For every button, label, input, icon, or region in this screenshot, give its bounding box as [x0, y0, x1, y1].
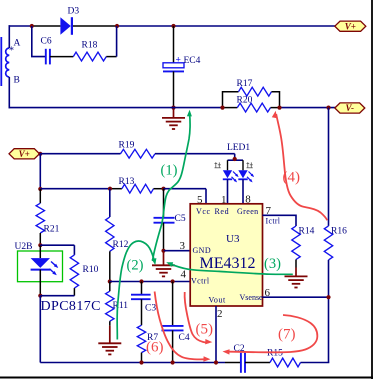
op-amp U3 ME4312 body [190, 204, 262, 306]
resistor R20 [237, 103, 270, 112]
svg-text:C6: C6 [41, 37, 52, 47]
svg-text:R11: R11 [113, 301, 129, 311]
junction dot [277, 106, 281, 110]
svg-text:LE: LE [227, 143, 239, 153]
optocoupler U2B box [18, 251, 63, 282]
wire C6 branch [32, 26, 46, 57]
wire EC4 top lead [173, 26, 175, 63]
resistor R16 [324, 226, 332, 260]
svg-text:+: + [176, 56, 181, 66]
page border bottom [0, 377, 373, 379]
wire pin4 row [110, 281, 191, 283]
svg-text:Ictrl: Ictrl [266, 217, 281, 226]
svg-text:R20: R20 [237, 95, 253, 105]
junction dot [38, 187, 42, 191]
junction dot [326, 295, 330, 299]
junction dot [38, 243, 42, 247]
capacitor C6 [45, 49, 47, 65]
svg-text:ME4312: ME4312 [200, 255, 256, 272]
resistor R12 [106, 217, 114, 251]
wire diode lead right (black) [73, 25, 117, 27]
junction dot [161, 187, 165, 191]
wire R19 to LED [155, 153, 235, 155]
LED green (right) [242, 160, 244, 170]
annotation red curve (5) [185, 292, 209, 342]
svg-text:R17: R17 [237, 79, 253, 89]
wire right column upper [328, 108, 330, 226]
svg-text:R21: R21 [44, 225, 60, 235]
wire inductor top lead [8, 25, 10, 48]
resistor R19 [121, 149, 156, 158]
junction dot [171, 106, 175, 110]
LED red (left) [227, 160, 229, 170]
wire C5 bottom lead [163, 223, 165, 251]
wire R12 bottom lead [109, 251, 111, 281]
svg-text:U2B: U2B [15, 242, 33, 252]
svg-text:V-: V- [346, 103, 355, 113]
LED D1 bracket [228, 159, 244, 161]
wire inductor bottom lead [8, 77, 10, 108]
svg-text:C5: C5 [175, 214, 186, 224]
junction dot [171, 279, 175, 283]
page border right [371, 0, 373, 379]
junction dot [214, 360, 218, 364]
svg-text:(1): (1) [161, 163, 178, 179]
capacitor C3 [141, 282, 143, 295]
wire mid rail [9, 107, 223, 109]
svg-text:R19: R19 [119, 141, 135, 151]
svg-text:(3): (3) [264, 256, 281, 272]
resistor R18 [73, 52, 106, 61]
ground mid (pin3) [163, 251, 165, 265]
svg-text:(5): (5) [196, 322, 214, 338]
svg-text:(2): (2) [127, 258, 144, 274]
junction dot [220, 106, 224, 110]
svg-text:R13: R13 [119, 177, 135, 187]
svg-text:Red: Red [215, 207, 230, 216]
wire pin2 [215, 306, 217, 363]
label lv (green) [247, 163, 250, 165]
wire R13 row [40, 188, 110, 190]
svg-text:V+: V+ [345, 21, 356, 31]
svg-text:D3: D3 [68, 7, 80, 17]
power port V+ top right [335, 21, 366, 31]
wire EC4 bottom lead [173, 71, 175, 108]
svg-text:(4): (4) [283, 170, 301, 186]
svg-text:R18: R18 [82, 41, 98, 51]
wire C6 to R18 (black) [50, 56, 73, 58]
svg-text:GND: GND [193, 246, 212, 255]
svg-text:(7): (7) [278, 327, 296, 343]
wire right column lower [328, 260, 330, 363]
svg-text:Vsense: Vsense [240, 293, 264, 302]
svg-text:2: 2 [217, 308, 223, 320]
svg-text:3: 3 [180, 240, 186, 252]
resistor R15 [270, 358, 301, 367]
ground under R14 [295, 260, 297, 268]
junction dot [139, 360, 143, 364]
annotation green curve (2) [117, 241, 154, 339]
power port V- [335, 103, 365, 113]
wire R10 top [40, 244, 74, 246]
svg-text:R12: R12 [113, 240, 129, 250]
svg-text:Vcc: Vcc [196, 207, 211, 216]
junction dot [171, 360, 175, 364]
junction dot [233, 157, 237, 161]
resistor R7 [141, 299, 143, 325]
junction dot [30, 24, 34, 28]
capacitor C4 [172, 282, 174, 326]
svg-text:1: 1 [221, 194, 227, 206]
svg-text:8: 8 [245, 194, 251, 206]
power port V+ left [9, 149, 40, 159]
capacitor C5 [154, 217, 175, 219]
wire C5 top lead [163, 189, 165, 218]
ground under EC4 [173, 108, 175, 118]
resistor R11 [109, 282, 111, 292]
svg-text:4: 4 [181, 269, 187, 281]
annotation red curve (7) [228, 315, 317, 352]
resistor R14 [292, 226, 300, 260]
transformer core line [0, 37, 2, 86]
svg-text:C3: C3 [145, 304, 156, 314]
annotation red curve (6) [155, 292, 205, 360]
wire R20 lead left (black) [223, 107, 238, 109]
wire diode lead left (black) [32, 25, 61, 27]
svg-text:R16: R16 [331, 227, 347, 237]
annotation red curve (4) [276, 114, 327, 220]
LED inside U2B [39, 245, 41, 258]
wire R15 to right column [301, 362, 330, 364]
svg-text:R14: R14 [299, 227, 315, 237]
svg-text:*: * [9, 46, 14, 57]
svg-text:Vout: Vout [209, 296, 227, 305]
junction dot [38, 294, 42, 298]
svg-text:U3: U3 [226, 233, 240, 245]
annotation green curve (3) [169, 263, 293, 274]
svg-text:B: B [14, 76, 20, 86]
svg-text:Green: Green [237, 207, 259, 216]
wire pin6 [263, 296, 329, 298]
svg-text:5: 5 [197, 194, 203, 206]
resistor R21 [39, 189, 41, 203]
wire V+ down [39, 154, 41, 189]
svg-text:(6): (6) [146, 340, 164, 356]
capacitor EC4 [163, 63, 184, 68]
svg-text:EC4: EC4 [184, 56, 201, 66]
svg-text:DPC817C: DPC817C [41, 299, 101, 314]
svg-text:A: A [14, 39, 21, 49]
wire R20 lead right (black) [271, 107, 280, 109]
resistor R10 [73, 245, 75, 255]
junction dot [326, 106, 330, 110]
wire bottom rail [40, 362, 225, 364]
annotation green curve (1) [153, 114, 191, 262]
svg-text:R15: R15 [267, 349, 283, 359]
wire R18 to top rail [106, 56, 116, 58]
inductor winding A-B [6, 48, 10, 77]
wire to C2 (black) [225, 362, 241, 364]
label hong (red) [215, 163, 218, 165]
junction dot [38, 152, 42, 156]
junction dot [139, 279, 143, 283]
wire R19 row [40, 153, 120, 155]
wire left column to bottom [39, 296, 41, 363]
wire to pin5 [164, 188, 207, 190]
capacitor C2 [240, 353, 242, 373]
resistor R13 [110, 188, 122, 190]
ground under R11 [109, 326, 111, 343]
junction dot [161, 249, 165, 253]
wire pin7 [263, 215, 297, 226]
junction dot [115, 24, 119, 28]
svg-text:R10: R10 [83, 265, 99, 275]
junction dot [108, 187, 112, 191]
svg-text:Vctrl: Vctrl [191, 277, 210, 286]
resistor R17 loop bracket [223, 92, 239, 108]
wire R12 top lead [109, 189, 111, 217]
diode D3 [60, 17, 70, 35]
svg-text:V+: V+ [19, 149, 30, 159]
junction dot [171, 24, 175, 28]
wire C2 to R15 (black) [245, 362, 270, 364]
junction dot [108, 279, 112, 283]
wire pin3 [164, 250, 191, 252]
wire top rail right [117, 25, 336, 27]
wire R10 bottom [40, 295, 74, 297]
wire top rail left [9, 25, 33, 27]
svg-text:D1: D1 [239, 143, 251, 153]
wire mid rail right [280, 107, 336, 109]
svg-text:C4: C4 [179, 333, 190, 343]
